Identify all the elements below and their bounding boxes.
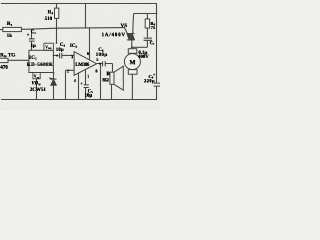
zener diode VDW 2CW51 [49, 78, 56, 86]
wire right edge down [156, 4, 158, 100]
junction snubber corner [156, 13, 158, 15]
wire triac column [132, 14, 134, 49]
wire C1 column [31, 29, 33, 50]
capacitor C4 plates [60, 53, 62, 59]
junction triac/motor node [131, 46, 133, 48]
wire R4 column [56, 4, 58, 44]
wire output to ground [100, 64, 102, 100]
capacitor C8 plates [154, 83, 160, 86]
pin box Vss [33, 73, 40, 79]
wire C5 column [85, 69, 87, 100]
capacitor C5 plates [84, 85, 89, 88]
motor M [124, 49, 140, 74]
junction jumper/VDD rail [85, 27, 86, 28]
capacitor C7 plates [144, 38, 152, 40]
wire snubber bottom link [132, 46, 148, 48]
wire top AC rail [1, 3, 157, 5]
wire motor bottom [131, 74, 133, 100]
capacitor C1 plates [29, 39, 35, 41]
wire C4 row [53, 54, 74, 56]
pin box VDD [44, 43, 54, 50]
wire LM386 pin6 supply [89, 28, 91, 61]
wire TG input [8, 59, 29, 61]
wire speaker bottom [111, 84, 113, 100]
wire snubber column [146, 14, 148, 48]
resistor R4 [55, 8, 59, 18]
junction VDD pin [56, 42, 58, 44]
wire jumper top rail to VDD rail [85, 4, 87, 28]
capacitor C6 plates [103, 61, 106, 66]
op-amp IC3 LM386 triangle [74, 52, 97, 76]
junction zener top [53, 72, 55, 74]
wire zener column [53, 73, 55, 100]
speaker B 8ohm [110, 66, 123, 90]
wire pin2 ground [66, 70, 75, 100]
wire snubber top link [134, 13, 157, 15]
resistor R1 [3, 27, 22, 31]
wire gate diagonal [124, 28, 127, 34]
resistor R6 [145, 19, 149, 28]
wire output row [97, 64, 113, 73]
wire Vss ground [36, 79, 38, 100]
wire bottom ground rail [1, 99, 157, 101]
triac VS [127, 34, 135, 40]
junction output node [100, 63, 102, 65]
resistor R3 TG [0, 58, 8, 62]
junction R4/VDD rail [56, 27, 58, 29]
wire VDD/gate rail [0, 28, 125, 30]
IC2 box KD-5608K [29, 50, 54, 72]
wire pin4 ground [78, 73, 80, 100]
